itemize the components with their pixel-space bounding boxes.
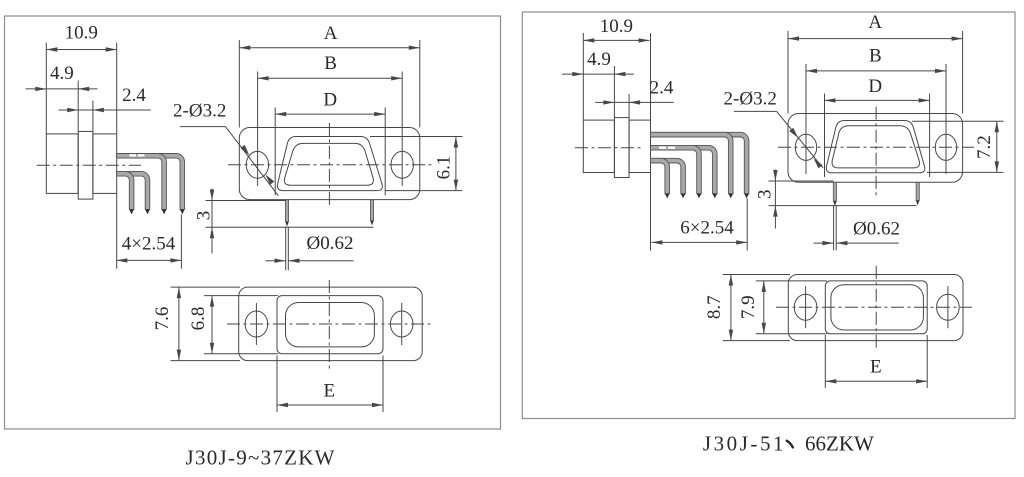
dim 2.4 left (59, 85, 151, 131)
dim 8.7 right (704, 275, 790, 341)
left front pin left (285, 200, 288, 227)
dim A left (239, 23, 419, 128)
svg-text:4.9: 4.9 (50, 63, 74, 84)
svg-text:6.1: 6.1 (433, 156, 454, 180)
left bottom view insert outer (277, 296, 383, 354)
svg-text:6×2.54: 6×2.54 (680, 218, 734, 239)
svg-text:E: E (323, 381, 335, 402)
right bottom view hole right (937, 294, 960, 320)
right bottom view body (788, 275, 963, 341)
label 2-diam3.2 right (724, 89, 824, 169)
svg-text:7.6: 7.6 (152, 307, 173, 331)
svg-text:10.9: 10.9 (65, 23, 98, 44)
dim 6.8 left (188, 296, 278, 354)
left front view centerline horizontal (228, 164, 433, 166)
dim 3 right (755, 170, 917, 229)
right panel border (522, 12, 1015, 419)
right bottom hole crosslines (806, 286, 948, 328)
right pin overlap marks (659, 147, 675, 149)
svg-text:10.9: 10.9 (600, 16, 633, 37)
dim 6x2.54 right (651, 173, 748, 251)
left bottom view hole left (245, 311, 268, 337)
svg-text:B: B (324, 53, 337, 74)
svg-text:2-Ø3.2: 2-Ø3.2 (173, 101, 226, 122)
left bottom view centerline vertical (328, 280, 330, 369)
left side view centerline (37, 164, 141, 166)
right bottom view insert inner (831, 285, 924, 330)
svg-text:3: 3 (755, 190, 776, 200)
left side view flange (78, 131, 93, 199)
right side view pin 5 (651, 132, 734, 193)
svg-text:Ø0.62: Ø0.62 (853, 218, 900, 239)
left front view centerline vertical (328, 123, 330, 207)
dim 2.4 right (595, 78, 674, 118)
left side view pin 2 (117, 171, 150, 209)
right front view centerline horizontal (778, 146, 974, 148)
right bottom view insert outer (825, 281, 927, 334)
right bottom view centerline vertical (875, 266, 877, 350)
right side view centerline (575, 147, 644, 149)
svg-text:B: B (869, 46, 882, 67)
dim E left (277, 356, 383, 413)
right side view pin 3 (651, 145, 702, 193)
right side view pin 1 (651, 158, 670, 193)
dim A right (788, 12, 963, 113)
right front view hole left (795, 134, 816, 160)
left front view body (239, 128, 419, 200)
dim 4.9 left (26, 63, 98, 131)
right caption (703, 432, 874, 456)
dim E right (825, 335, 927, 388)
right side view flange (614, 118, 629, 178)
dim 7.6 left (152, 287, 240, 361)
right front view hole right (935, 134, 956, 160)
svg-text:2.4: 2.4 (650, 78, 674, 99)
svg-text:7.9: 7.9 (738, 295, 759, 319)
left front view shell inner (284, 143, 373, 185)
left side view body (46, 134, 116, 194)
svg-text:8.7: 8.7 (704, 295, 725, 319)
left panel border (5, 16, 501, 429)
pin overlap marks (130, 154, 145, 156)
right side view pin 2 (651, 158, 686, 193)
svg-text:Ø0.62: Ø0.62 (307, 233, 354, 254)
left bottom view centerline horizontal (227, 323, 431, 325)
dim D left (275, 90, 385, 196)
dim 7.9 right (738, 281, 827, 334)
svg-text:D: D (868, 76, 882, 97)
dim B left (258, 53, 403, 186)
left bottom view insert inner (286, 303, 375, 347)
svg-text:2-Ø3.2: 2-Ø3.2 (724, 89, 777, 110)
right front view shell outer (826, 121, 925, 173)
svg-text:3: 3 (194, 211, 215, 221)
dim diam0.62 left (266, 227, 354, 271)
right front pin left (833, 182, 836, 206)
left side view pin 1 (117, 171, 134, 209)
svg-text:4.9: 4.9 (587, 49, 611, 70)
right front view centerline vertical (875, 107, 877, 196)
dim B right (806, 46, 946, 175)
label 2-diam3.2 left (173, 101, 278, 196)
dim 6.1 left (370, 137, 463, 191)
left bottom view body (239, 287, 423, 361)
left side view pin 3 (117, 154, 167, 210)
dim 10.9 left (46, 23, 116, 134)
svg-text:6.8: 6.8 (188, 307, 209, 331)
left front view hole right (391, 151, 413, 178)
left front view hole left (246, 151, 268, 178)
svg-text:D: D (323, 90, 337, 111)
svg-text:66ZKW: 66ZKW (805, 432, 874, 456)
dim D right (825, 76, 930, 177)
svg-text:J30J-51: J30J-51 (703, 432, 784, 456)
right side view pin 4 (651, 145, 718, 193)
svg-text:A: A (324, 23, 338, 44)
left front view shell outer (277, 137, 382, 191)
right side view body (583, 120, 650, 172)
right bottom view hole left (794, 294, 817, 320)
svg-text:E: E (870, 357, 882, 378)
svg-text:4×2.54: 4×2.54 (122, 234, 176, 255)
svg-text:2.4: 2.4 (122, 85, 146, 106)
dim 3 left (194, 189, 374, 254)
svg-text:J30J-9~37ZKW: J30J-9~37ZKW (186, 446, 335, 470)
dim 4x2.54 left (116, 193, 181, 268)
right side view pin 6 (651, 132, 749, 193)
svg-text:A: A (868, 12, 882, 33)
right front pin right (916, 182, 919, 205)
dim 4.9 right (562, 49, 634, 118)
dim 10.9 right (583, 16, 650, 120)
dim diam0.62 right (814, 206, 900, 251)
left front pin right (370, 200, 373, 226)
svg-text:7.2: 7.2 (974, 135, 995, 159)
right front view body (788, 114, 963, 183)
left bottom hole crosslines (256, 303, 401, 345)
dim 7.2 right (912, 121, 1004, 172)
left side view pin 4 (117, 154, 185, 210)
right front view shell inner (832, 126, 920, 168)
left bottom view hole right (390, 311, 413, 337)
right bottom view centerline horizontal (776, 306, 972, 308)
